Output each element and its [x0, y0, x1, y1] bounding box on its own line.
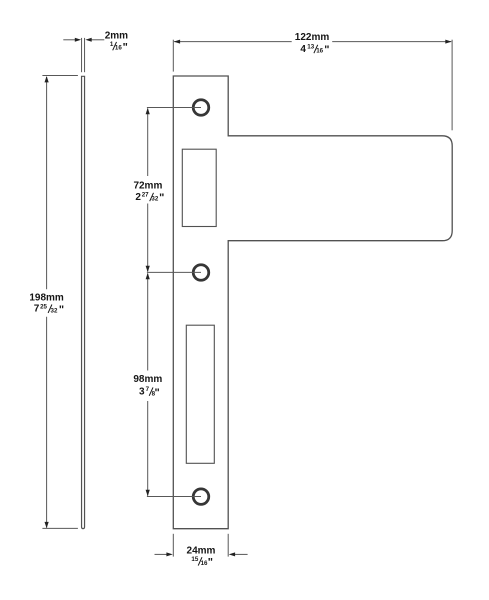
hole 2 center extension line [147, 271, 201, 273]
72mm dimension line [147, 108, 149, 176]
svg-text:2mm: 2mm [105, 31, 128, 42]
hole 3 center extension line [147, 496, 201, 498]
label 7 25/32 inch [34, 303, 64, 316]
svg-text:32: 32 [51, 307, 58, 314]
198mm extension line top [42, 75, 78, 77]
label 2 27/32 inch [135, 192, 164, 205]
arrowhead 24mm left (points right) [166, 552, 172, 556]
front view faceplate outline with tab [173, 76, 452, 529]
svg-text:7: 7 [146, 386, 150, 393]
svg-text:24mm: 24mm [187, 546, 216, 557]
2mm dimension arrow right [92, 39, 105, 41]
198mm extension line bottom [42, 527, 78, 529]
hole 1 center extension line [147, 107, 201, 109]
svg-text:": " [155, 387, 160, 399]
svg-text:72mm: 72mm [133, 180, 162, 191]
svg-text:1: 1 [110, 41, 114, 48]
svg-text:": " [159, 192, 164, 204]
svg-text:122mm: 122mm [295, 32, 330, 43]
198mm dimension line [46, 77, 48, 289]
lower deadbolt cutout [186, 325, 214, 463]
upper latch cutout [182, 149, 216, 226]
24mm dimension arrow right tail [235, 553, 248, 555]
arrowhead 2mm right (points left) [85, 38, 91, 42]
svg-text:16: 16 [115, 45, 122, 52]
svg-text:7: 7 [34, 304, 40, 315]
svg-text:27: 27 [142, 192, 149, 199]
screw hole middle [193, 265, 209, 281]
svg-text:198mm: 198mm [29, 293, 64, 304]
24mm extension line left [172, 534, 174, 557]
label 3 7/8 inch [139, 386, 160, 399]
122mm extension line right [451, 40, 453, 131]
122mm dimension line [174, 41, 292, 43]
arrowhead 198mm bottom (points down) [45, 522, 49, 528]
svg-text:16: 16 [316, 48, 323, 55]
label 4 13/16 inch [300, 44, 329, 57]
svg-text:": " [59, 304, 64, 316]
screw hole top [193, 100, 209, 116]
svg-text:3: 3 [139, 387, 145, 398]
arrowhead 198mm top (points up) [45, 76, 49, 82]
svg-text:": " [123, 41, 128, 53]
arrowhead 24mm right (points left) [229, 552, 235, 556]
svg-text:": " [324, 44, 329, 56]
svg-text:25: 25 [40, 303, 47, 310]
screw hole bottom [193, 489, 209, 505]
label 1/16 inch [110, 41, 128, 54]
svg-text:2: 2 [135, 192, 141, 203]
24mm dimension arrow left tail [155, 553, 167, 555]
24mm extension line right [227, 534, 229, 557]
svg-text:13: 13 [307, 44, 314, 51]
122mm extension line left [172, 40, 174, 72]
arrowhead 122mm right (points right) [445, 40, 451, 44]
svg-text:98mm: 98mm [133, 374, 162, 385]
svg-text:4: 4 [300, 44, 306, 55]
svg-text:": " [208, 557, 213, 569]
2mm dimension arrow left [63, 39, 75, 41]
2mm extension lines [81, 38, 83, 72]
arrowhead 122mm left (points left) [174, 40, 180, 44]
arrowhead 98mm top (points up) [146, 273, 150, 279]
svg-text:32: 32 [151, 196, 158, 203]
arrowhead 72mm bottom (points down) [146, 266, 150, 272]
svg-text:15: 15 [191, 556, 198, 563]
arrowhead 72mm top (points up) [146, 108, 150, 114]
98mm dimension line [147, 273, 149, 370]
label 15/16 inch [191, 556, 213, 569]
side view plate profile [82, 76, 85, 528]
arrowhead 98mm bottom (points down) [146, 490, 150, 496]
arrowhead 2mm left (points right) [75, 38, 81, 42]
